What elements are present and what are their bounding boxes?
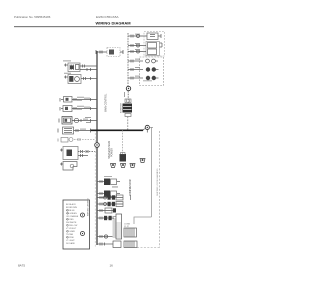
svg-text:Publication No. 5995545186: Publication No. 5995545186 (14, 15, 51, 19)
svg-text:TN TAN: TN TAN (66, 233, 74, 236)
svg-text:DK DARK: DK DARK (66, 242, 76, 245)
svg-text:SHIPPED LOOSE HARNESS: SHIPPED LOOSE HARNESS (156, 168, 159, 196)
svg-text:WIRING DIAGRAM: WIRING DIAGRAM (96, 21, 132, 26)
svg-text:WH WHITE: WH WHITE (66, 222, 77, 224)
svg-text:COMPRESSOR: COMPRESSOR (130, 179, 132, 196)
svg-text:8A75: 8A75 (18, 264, 25, 268)
svg-text:EI26CC55GS5A: EI26CC55GS5A (96, 15, 119, 19)
svg-text:POWER: POWER (111, 148, 114, 157)
svg-text:INVERTER: INVERTER (120, 102, 122, 113)
svg-text:VT VIOLET: VT VIOLET (66, 228, 77, 230)
svg-text:16: 16 (110, 264, 114, 268)
svg-text:LT LIGHT: LT LIGHT (66, 240, 75, 242)
svg-text:BR BROWN: BR BROWN (66, 207, 78, 209)
svg-text:BK BLACK: BK BLACK (66, 203, 76, 206)
svg-text:WIRING LEGEND: WIRING LEGEND (87, 198, 89, 216)
svg-text:MAIN CONTROL: MAIN CONTROL (105, 93, 108, 112)
svg-text:OR ORANGE: OR ORANGE (66, 215, 79, 218)
